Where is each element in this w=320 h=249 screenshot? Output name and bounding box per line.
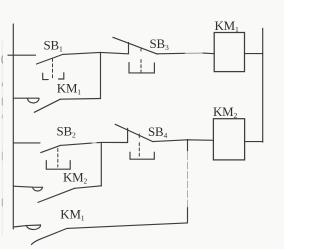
SB4 actuator button head [130, 152, 154, 159]
pushbutton SB4 left terminal tick [127, 128, 129, 142]
pushbutton SB2 movable contact [41, 145, 61, 152]
wire KM2 contact to node B [75, 186, 102, 189]
pushbutton SB4 movable contact (NC) [115, 124, 153, 141]
pushbutton SB3 movable contact (NC) [113, 37, 157, 54]
wire SB3 output to KM1 coil [157, 52, 185, 55]
wire KM2 coil to right bus [245, 141, 263, 143]
right bus (vertical return line) [262, 28, 264, 142]
SB3 linkage dashed line [140, 49, 142, 51]
wire KM1 coil to right bus [245, 53, 263, 55]
contact KM1 fixed contact arc [28, 98, 39, 103]
wire row5 to riser C [67, 223, 188, 229]
wire row5 from bus to KM1 interlock contact [13, 225, 40, 227]
node B riser between row3 and row4 [100, 142, 102, 185]
wire row1 from bus to SB1 [8, 54, 36, 56]
contact KM1 movable blade [34, 99, 60, 112]
left bus (vertical supply line) [12, 24, 14, 229]
wire SB4 output to KM2 coil [153, 140, 214, 142]
wire SB1 output to junction A [63, 52, 101, 54]
coil KM1 box [214, 33, 244, 72]
wire SB2 output to junction B [60, 143, 92, 145]
wire junction B to SB4 terminal [101, 141, 127, 143]
node C riser from row5 up to KM2 coil input [187, 207, 189, 223]
node A riser between row1 and row2 [100, 52, 102, 98]
contact KM1 interlock fixed contact arc [27, 225, 41, 230]
SB1 linkage dashed line [52, 59, 54, 79]
wire row3 from bus to SB2 [13, 142, 40, 144]
wire KM1 contact to node A [60, 98, 100, 101]
SB4 linkage dashed line [138, 134, 140, 138]
contact KM2 movable blade [38, 188, 75, 202]
page-edge artifact marks [1, 40, 4, 235]
SB3 actuator button head [129, 63, 154, 73]
SB2 actuator button head [46, 161, 70, 170]
SB2 linkage dashed line [57, 149, 59, 168]
coil KM2 box [213, 119, 244, 160]
SB1 actuator button head [43, 73, 49, 79]
wire row2 from bus to KM1 contact [13, 97, 39, 99]
contact KM2 fixed contact arc [33, 187, 43, 191]
contact KM1 interlock movable blade [32, 228, 68, 244]
pushbutton SB3 left terminal tick [128, 43, 130, 54]
wire junction A to SB3 terminal [101, 52, 128, 53]
wire row4 from bus to KM2 contact [13, 186, 42, 187]
pushbutton SB1 movable contact [37, 55, 63, 65]
